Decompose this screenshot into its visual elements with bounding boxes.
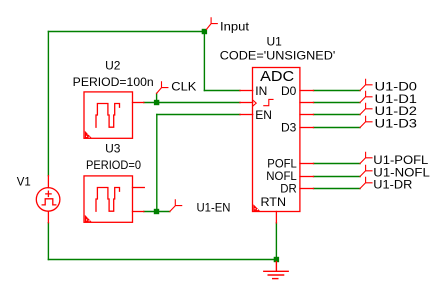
pin label EN <box>255 108 272 122</box>
svg-text:D3: D3 <box>281 121 297 135</box>
wire CLK flag stub <box>156 93 158 102</box>
label U2 <box>105 59 121 73</box>
label PERIOD=0 <box>86 158 141 172</box>
wire DR <box>314 188 361 190</box>
label CLK <box>171 79 196 93</box>
wire bottom horizontal to ground node <box>48 259 276 261</box>
pin label NOFL <box>266 169 297 183</box>
svg-text:U1-DR: U1-DR <box>373 178 412 192</box>
flag U1-POFL <box>360 152 372 163</box>
svg-text:EN: EN <box>255 108 272 122</box>
label U3 <box>105 141 121 155</box>
ground <box>264 262 288 279</box>
wire D1 <box>314 102 361 104</box>
wire D0 <box>314 90 361 92</box>
svg-text:RTN: RTN <box>261 195 287 209</box>
wire Input node down to IN row <box>203 32 205 91</box>
pin label D3 <box>281 121 297 135</box>
svg-text:ADC: ADC <box>260 68 294 85</box>
flag U1-DR <box>360 177 372 188</box>
pulse source U2 <box>84 92 144 138</box>
label U1-EN <box>197 201 231 215</box>
pin label POFL <box>267 157 297 171</box>
pin label RTN <box>261 195 287 209</box>
svg-text:U1: U1 <box>267 34 283 48</box>
flag CLK <box>157 82 168 94</box>
wire IN horizontal <box>204 90 240 92</box>
label U1-POFL <box>373 153 428 167</box>
svg-text:CODE='UNSIGNED': CODE='UNSIGNED' <box>220 49 335 63</box>
clock edge marker on ADC <box>253 100 257 106</box>
wire NOFL <box>314 176 361 178</box>
label U1-D3 <box>375 116 418 130</box>
clock step symbol inside ADC <box>264 99 273 105</box>
corner marker U3 <box>85 215 92 223</box>
pulse source U3 <box>84 176 144 222</box>
svg-text:PERIOD=0: PERIOD=0 <box>86 158 141 172</box>
wire RTN to ground node <box>275 223 277 260</box>
svg-text:IN: IN <box>255 84 267 98</box>
label PERIOD=100n <box>73 75 154 89</box>
svg-text:PERIOD=100n: PERIOD=100n <box>73 75 154 89</box>
voltage source V1 <box>36 176 60 223</box>
label CODE='UNSIGNED' <box>220 49 335 63</box>
wire D2 <box>314 114 361 116</box>
wire U2 output to ADC clock <box>144 102 240 104</box>
pin label D0 <box>281 84 297 98</box>
svg-text:Input: Input <box>220 19 250 33</box>
label U1 <box>267 34 283 48</box>
pin label ADC <box>260 68 294 85</box>
svg-text:V1: V1 <box>17 175 31 189</box>
svg-text:CLK: CLK <box>171 79 196 93</box>
corner marker U2 <box>85 131 92 139</box>
wire EN horizontal <box>157 114 240 116</box>
flag U1-D1 <box>360 91 372 102</box>
svg-text:U1-D3: U1-D3 <box>375 116 418 130</box>
wire POFL <box>314 163 361 165</box>
label V1 <box>17 175 31 189</box>
wire D3 <box>314 127 361 129</box>
node EN junction <box>154 209 159 214</box>
label U1-NOFL <box>373 165 430 179</box>
node ground junction <box>274 257 279 262</box>
label U1-D1 <box>375 92 418 106</box>
svg-text:U1-EN: U1-EN <box>197 201 231 215</box>
flag U1-D2 <box>360 103 372 114</box>
node CLK junction <box>154 100 159 105</box>
svg-text:DR: DR <box>280 181 297 195</box>
svg-text:D0: D0 <box>281 84 297 98</box>
flag Input <box>207 18 218 30</box>
pin label DR <box>280 181 297 195</box>
label U1-D2 <box>375 104 418 118</box>
node Input junction <box>202 29 207 34</box>
svg-text:U3: U3 <box>105 141 121 155</box>
wire top horizontal from left rail to Input node <box>48 31 204 33</box>
label U1-DR <box>373 178 412 192</box>
svg-text:U2: U2 <box>105 59 121 73</box>
ADC U1 box <box>240 68 314 223</box>
corner marker U1 <box>253 204 260 211</box>
flag U1-D3 <box>360 116 372 127</box>
flag U1-EN <box>170 200 182 212</box>
label Input <box>220 19 250 33</box>
wire EN vertical <box>156 115 158 212</box>
flag U1-D0 <box>360 79 372 90</box>
wire U3 output to EN node <box>144 211 170 213</box>
flag U1-NOFL <box>360 165 372 176</box>
pin label IN <box>255 84 267 98</box>
wire below V1 <box>47 223 49 260</box>
label U1-D0 <box>375 80 418 94</box>
wire left vertical rail <box>47 32 49 176</box>
